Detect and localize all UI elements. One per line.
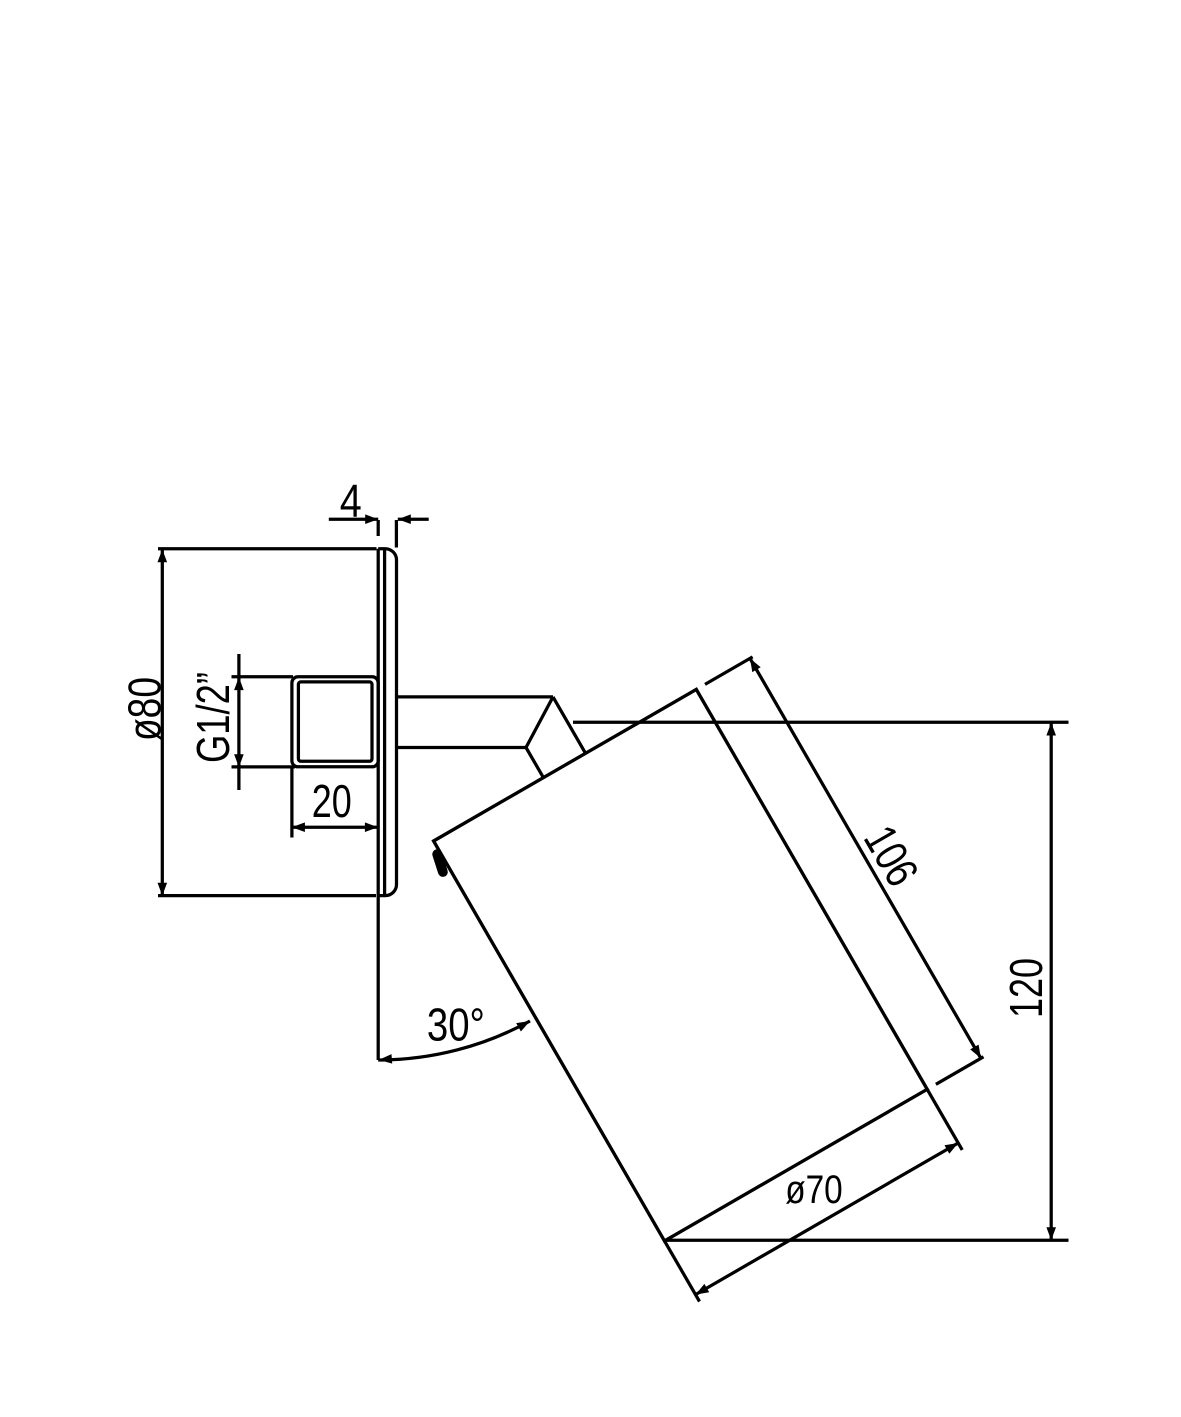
dim 4 extension tick right: [395, 520, 398, 548]
dim 20 arrow right: [365, 822, 378, 832]
G1/2 threaded fitting outer profile: [292, 677, 378, 767]
dim 106 label: [854, 817, 929, 895]
svg-text:20: 20: [312, 775, 352, 827]
dim 120 extension top: [573, 721, 1069, 724]
dim 106 arrow top: [750, 658, 761, 672]
svg-text:4: 4: [340, 475, 362, 527]
arm upper 60-deg edge into head: [553, 697, 586, 754]
dim G12 extension bottom: [232, 765, 296, 768]
arm lower 60-deg edge into head: [526, 748, 544, 779]
dim o70 extension left: [665, 1241, 700, 1302]
dim 4 line left: [329, 518, 378, 521]
dim 30 arrow at head edge: [516, 1021, 530, 1032]
dim 20 line: [292, 826, 378, 829]
wall line (plate back edge, extends down to 30-degree angle leg): [377, 549, 380, 1060]
dim o80 extension top: [158, 547, 377, 550]
dim G12 extension top: [232, 675, 294, 678]
dim G12 line: [237, 654, 240, 790]
svg-text:ø70: ø70: [785, 1168, 843, 1212]
svg-text:120: 120: [1000, 958, 1052, 1018]
dim 4 arrow left: [365, 514, 378, 524]
dim o80 extension bottom: [158, 894, 376, 897]
wall plate (escutcheon, side view, rounded front corners): [378, 549, 396, 896]
dim o70 line: [696, 1143, 959, 1295]
svg-text:106: 106: [854, 817, 929, 895]
arm bottom edge: [397, 746, 527, 749]
dim 106 line: [750, 658, 981, 1058]
dim 20 arrow left: [292, 822, 305, 832]
pivot nub on head back edge: [437, 854, 443, 872]
dim o70 arrow left: [696, 1284, 710, 1295]
shower head body (tilted cylinder, side view): [434, 689, 928, 1241]
dim 20 extension left: [290, 768, 293, 838]
arm top edge: [397, 695, 554, 698]
dim 120 label: [1000, 958, 1052, 1018]
dim 120 arrow top: [1046, 723, 1056, 736]
dim o80 arrow top: [158, 549, 168, 562]
dim G12 arrow top: [234, 677, 244, 690]
dim G12 label: [187, 672, 239, 763]
plate inner edge line: [383, 549, 386, 895]
dim 4 line right: [398, 518, 429, 521]
dimension 30 degrees: head tilt angle arc: [378, 1021, 530, 1060]
dim 4 extension tick left: [377, 520, 380, 536]
dim 120 extension bottom: [666, 1239, 1069, 1242]
dim o70 arrow right: [945, 1143, 959, 1154]
dim 30 arrow at wall line: [379, 1054, 392, 1064]
dim 120 arrow bottom: [1046, 1227, 1056, 1240]
dim o70 extension right: [927, 1089, 962, 1150]
dim o80 arrow bottom: [158, 883, 168, 896]
svg-text:30°: 30°: [427, 999, 485, 1051]
dim 4 arrow right: [398, 514, 411, 524]
dim 106 arrow bottom: [970, 1045, 981, 1059]
G1/2 threaded fitting inner face: [298, 682, 372, 761]
arm elbow mitre edge: [526, 697, 553, 748]
dim 106 extension bottom: [936, 1057, 984, 1085]
dim 120 line: [1050, 723, 1053, 1240]
svg-text:ø80: ø80: [119, 677, 171, 741]
dim o80 label: [119, 677, 171, 741]
dim G12 arrow bottom: [234, 754, 244, 767]
dim o80 line: [161, 550, 164, 895]
dim 106 extension top: [705, 657, 753, 685]
svg-text:G1/2”: G1/2”: [187, 672, 239, 763]
